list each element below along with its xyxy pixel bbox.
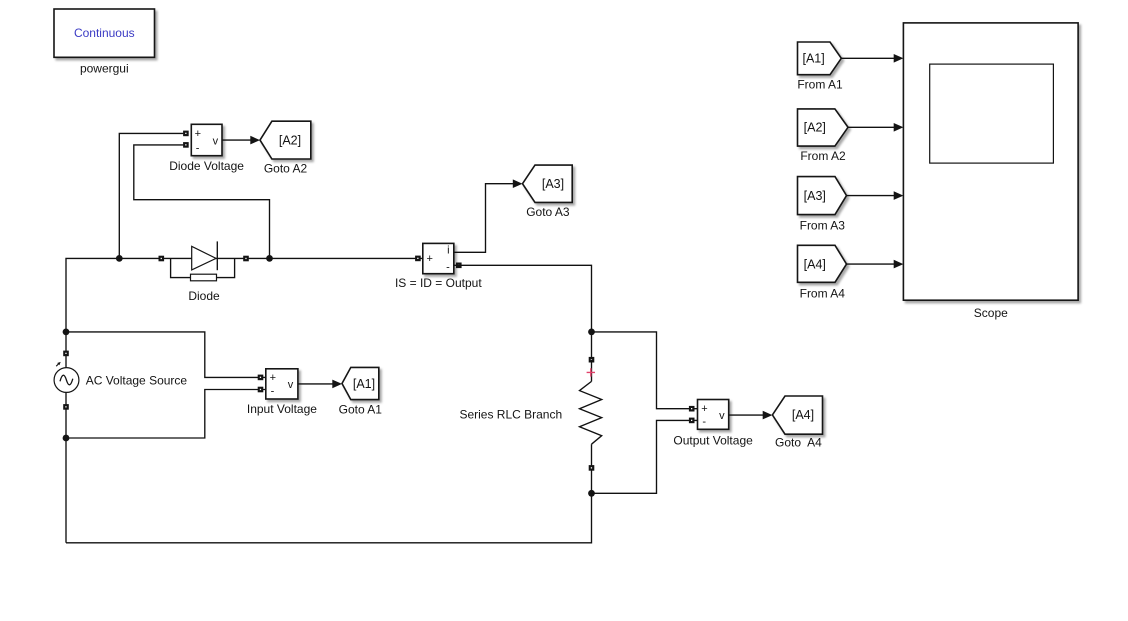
wire diode voltage + input (horizontal at y=133.4 and vertical x=119.3 down to anode node) xyxy=(119,133,183,258)
node AC source + junction xyxy=(63,329,70,336)
wire main anode/cathode rail at y=258.4 (AC source top corner to IS block) xyxy=(66,258,423,542)
Series RLC Branch bottom port xyxy=(589,465,595,471)
diode D1 snubber loop wire xyxy=(171,258,191,277)
svg-text:Diode Voltage: Diode Voltage xyxy=(169,159,244,173)
Input Voltage - port xyxy=(258,387,264,393)
svg-text:[A3]: [A3] xyxy=(542,177,564,191)
node anode junction xyxy=(116,255,123,262)
svg-text:-: - xyxy=(702,416,706,428)
Output Voltage - port xyxy=(689,418,695,424)
svg-text:[A2]: [A2] xyxy=(279,133,301,147)
svg-text:Goto A2: Goto A2 xyxy=(264,161,308,175)
svg-text:v: v xyxy=(288,379,294,391)
wire From A1 to Scope xyxy=(841,57,894,59)
wire IS - port to Series RLC Branch top xyxy=(454,265,592,359)
diode D1 cathode port xyxy=(243,256,249,262)
wire AC source + branch to Input Voltage + xyxy=(66,332,266,378)
node cathode junction xyxy=(266,255,273,262)
svg-text:Continuous: Continuous xyxy=(74,26,135,40)
svg-text:AC Voltage Source: AC Voltage Source xyxy=(86,373,188,387)
wire diode voltage - loop (left, down, right, down to cathode node) xyxy=(134,145,270,259)
From A3 tag xyxy=(798,177,847,215)
svg-text:From A4: From A4 xyxy=(800,287,846,301)
svg-text:Goto A4: Goto A4 xyxy=(775,436,822,450)
From A2 tag xyxy=(798,109,849,146)
svg-text:+: + xyxy=(270,372,276,384)
Goto A1 tag xyxy=(342,367,379,399)
AC Voltage Source sine xyxy=(60,375,73,385)
AC Voltage Source top port xyxy=(63,351,69,357)
svg-text:Goto A1: Goto A1 xyxy=(339,403,383,417)
svg-text:Goto A3: Goto A3 xyxy=(526,205,570,219)
wire RLC branch internal top stub xyxy=(591,360,593,382)
arrowhead From A1 into Scope xyxy=(894,54,904,63)
svg-text:[A1]: [A1] xyxy=(353,377,375,391)
svg-text:Input Voltage: Input Voltage xyxy=(247,402,317,416)
svg-text:v: v xyxy=(213,135,219,147)
Goto A2 tag xyxy=(260,121,311,159)
node RLC top junction xyxy=(588,329,595,336)
AC Voltage Source polarity arrow xyxy=(56,363,59,366)
arrowhead into Goto A1 xyxy=(332,380,342,389)
IS block + port xyxy=(415,256,421,262)
powergui block U_powergui xyxy=(54,9,155,57)
From A1 tag xyxy=(798,42,842,75)
svg-text:Diode: Diode xyxy=(188,289,220,303)
svg-text:[A4]: [A4] xyxy=(804,257,826,271)
Diode Voltage - port xyxy=(183,142,189,148)
Scope block xyxy=(903,23,1078,300)
diode D1 snubber resistor xyxy=(191,274,217,281)
wire From A3 to Scope xyxy=(847,195,895,197)
AC Voltage Source bottom port xyxy=(63,404,69,410)
IS block - port xyxy=(456,263,462,269)
voltage measurement block: Input Voltage xyxy=(266,369,298,399)
svg-text:+: + xyxy=(195,128,201,140)
svg-text:Scope: Scope xyxy=(974,306,1008,320)
voltage measurement block: Output Voltage xyxy=(698,400,729,430)
Output Voltage + port xyxy=(689,406,695,412)
wire AC source - branch to Input Voltage - xyxy=(66,390,266,439)
svg-text:From A3: From A3 xyxy=(800,219,846,233)
svg-text:-: - xyxy=(446,261,450,273)
From A4 tag xyxy=(798,245,847,282)
voltage measurement block: Diode Voltage xyxy=(191,124,222,155)
node AC source - junction xyxy=(63,435,70,442)
arrowhead From A3 into Scope xyxy=(894,191,904,200)
Series RLC Branch top port xyxy=(589,357,595,363)
svg-text:[A4]: [A4] xyxy=(792,408,814,422)
node RLC bottom junction xyxy=(588,490,595,497)
svg-text:v: v xyxy=(719,410,725,422)
svg-text:powergui: powergui xyxy=(80,61,129,75)
wire IS i output up to Goto A3 xyxy=(454,184,514,253)
svg-text:[A1]: [A1] xyxy=(802,52,824,66)
Diode Voltage + port xyxy=(183,131,189,137)
arrowhead From A4 into Scope xyxy=(894,260,904,269)
wire From A4 to Scope xyxy=(847,263,895,265)
wire RLC top junction to Output Voltage + xyxy=(592,332,698,409)
svg-text:From A1: From A1 xyxy=(797,77,843,91)
svg-text:[A3]: [A3] xyxy=(804,189,826,203)
svg-text:i: i xyxy=(447,244,449,256)
Goto A3 tag xyxy=(523,165,573,202)
diode D1 triangle xyxy=(192,246,216,270)
wire Input Voltage v output to Goto A1 xyxy=(298,383,333,385)
svg-text:IS = ID = Output: IS = ID = Output xyxy=(395,276,482,290)
wire bottom return rail xyxy=(66,493,592,543)
svg-text:From A2: From A2 xyxy=(800,149,846,163)
AC Voltage Source circle xyxy=(54,368,79,393)
arrowhead into Goto A4 xyxy=(763,411,773,420)
diode D1 cathode bar xyxy=(216,241,218,270)
arrowhead From A2 into Scope xyxy=(894,123,904,132)
svg-text:-: - xyxy=(196,142,200,154)
svg-text:+: + xyxy=(701,403,707,415)
Goto A4 tag xyxy=(772,396,822,434)
Input Voltage + port xyxy=(258,375,264,381)
svg-text:Series RLC Branch: Series RLC Branch xyxy=(459,407,562,421)
svg-text:Output Voltage: Output Voltage xyxy=(673,434,753,448)
svg-text:[A2]: [A2] xyxy=(804,121,826,135)
diode D1 anode port xyxy=(159,256,165,262)
svg-text:+: + xyxy=(426,253,432,265)
wire Output Voltage v output to Goto A4 xyxy=(729,414,764,416)
wire RLC bottom junction to Output Voltage - xyxy=(592,420,698,493)
arrowhead into Goto A2 xyxy=(250,136,260,145)
wire Diode Voltage v output to Goto A2 xyxy=(222,139,251,141)
arrowhead into Goto A3 xyxy=(513,179,523,188)
wire From A2 to Scope xyxy=(848,126,894,128)
svg-text:-: - xyxy=(271,386,275,398)
polarity mark red plus xyxy=(587,368,595,376)
current measurement block: IS = ID = Output xyxy=(423,243,454,273)
resistor zigzag Series RLC Branch xyxy=(580,381,602,444)
wire RLC branch internal bottom stub xyxy=(591,444,593,493)
